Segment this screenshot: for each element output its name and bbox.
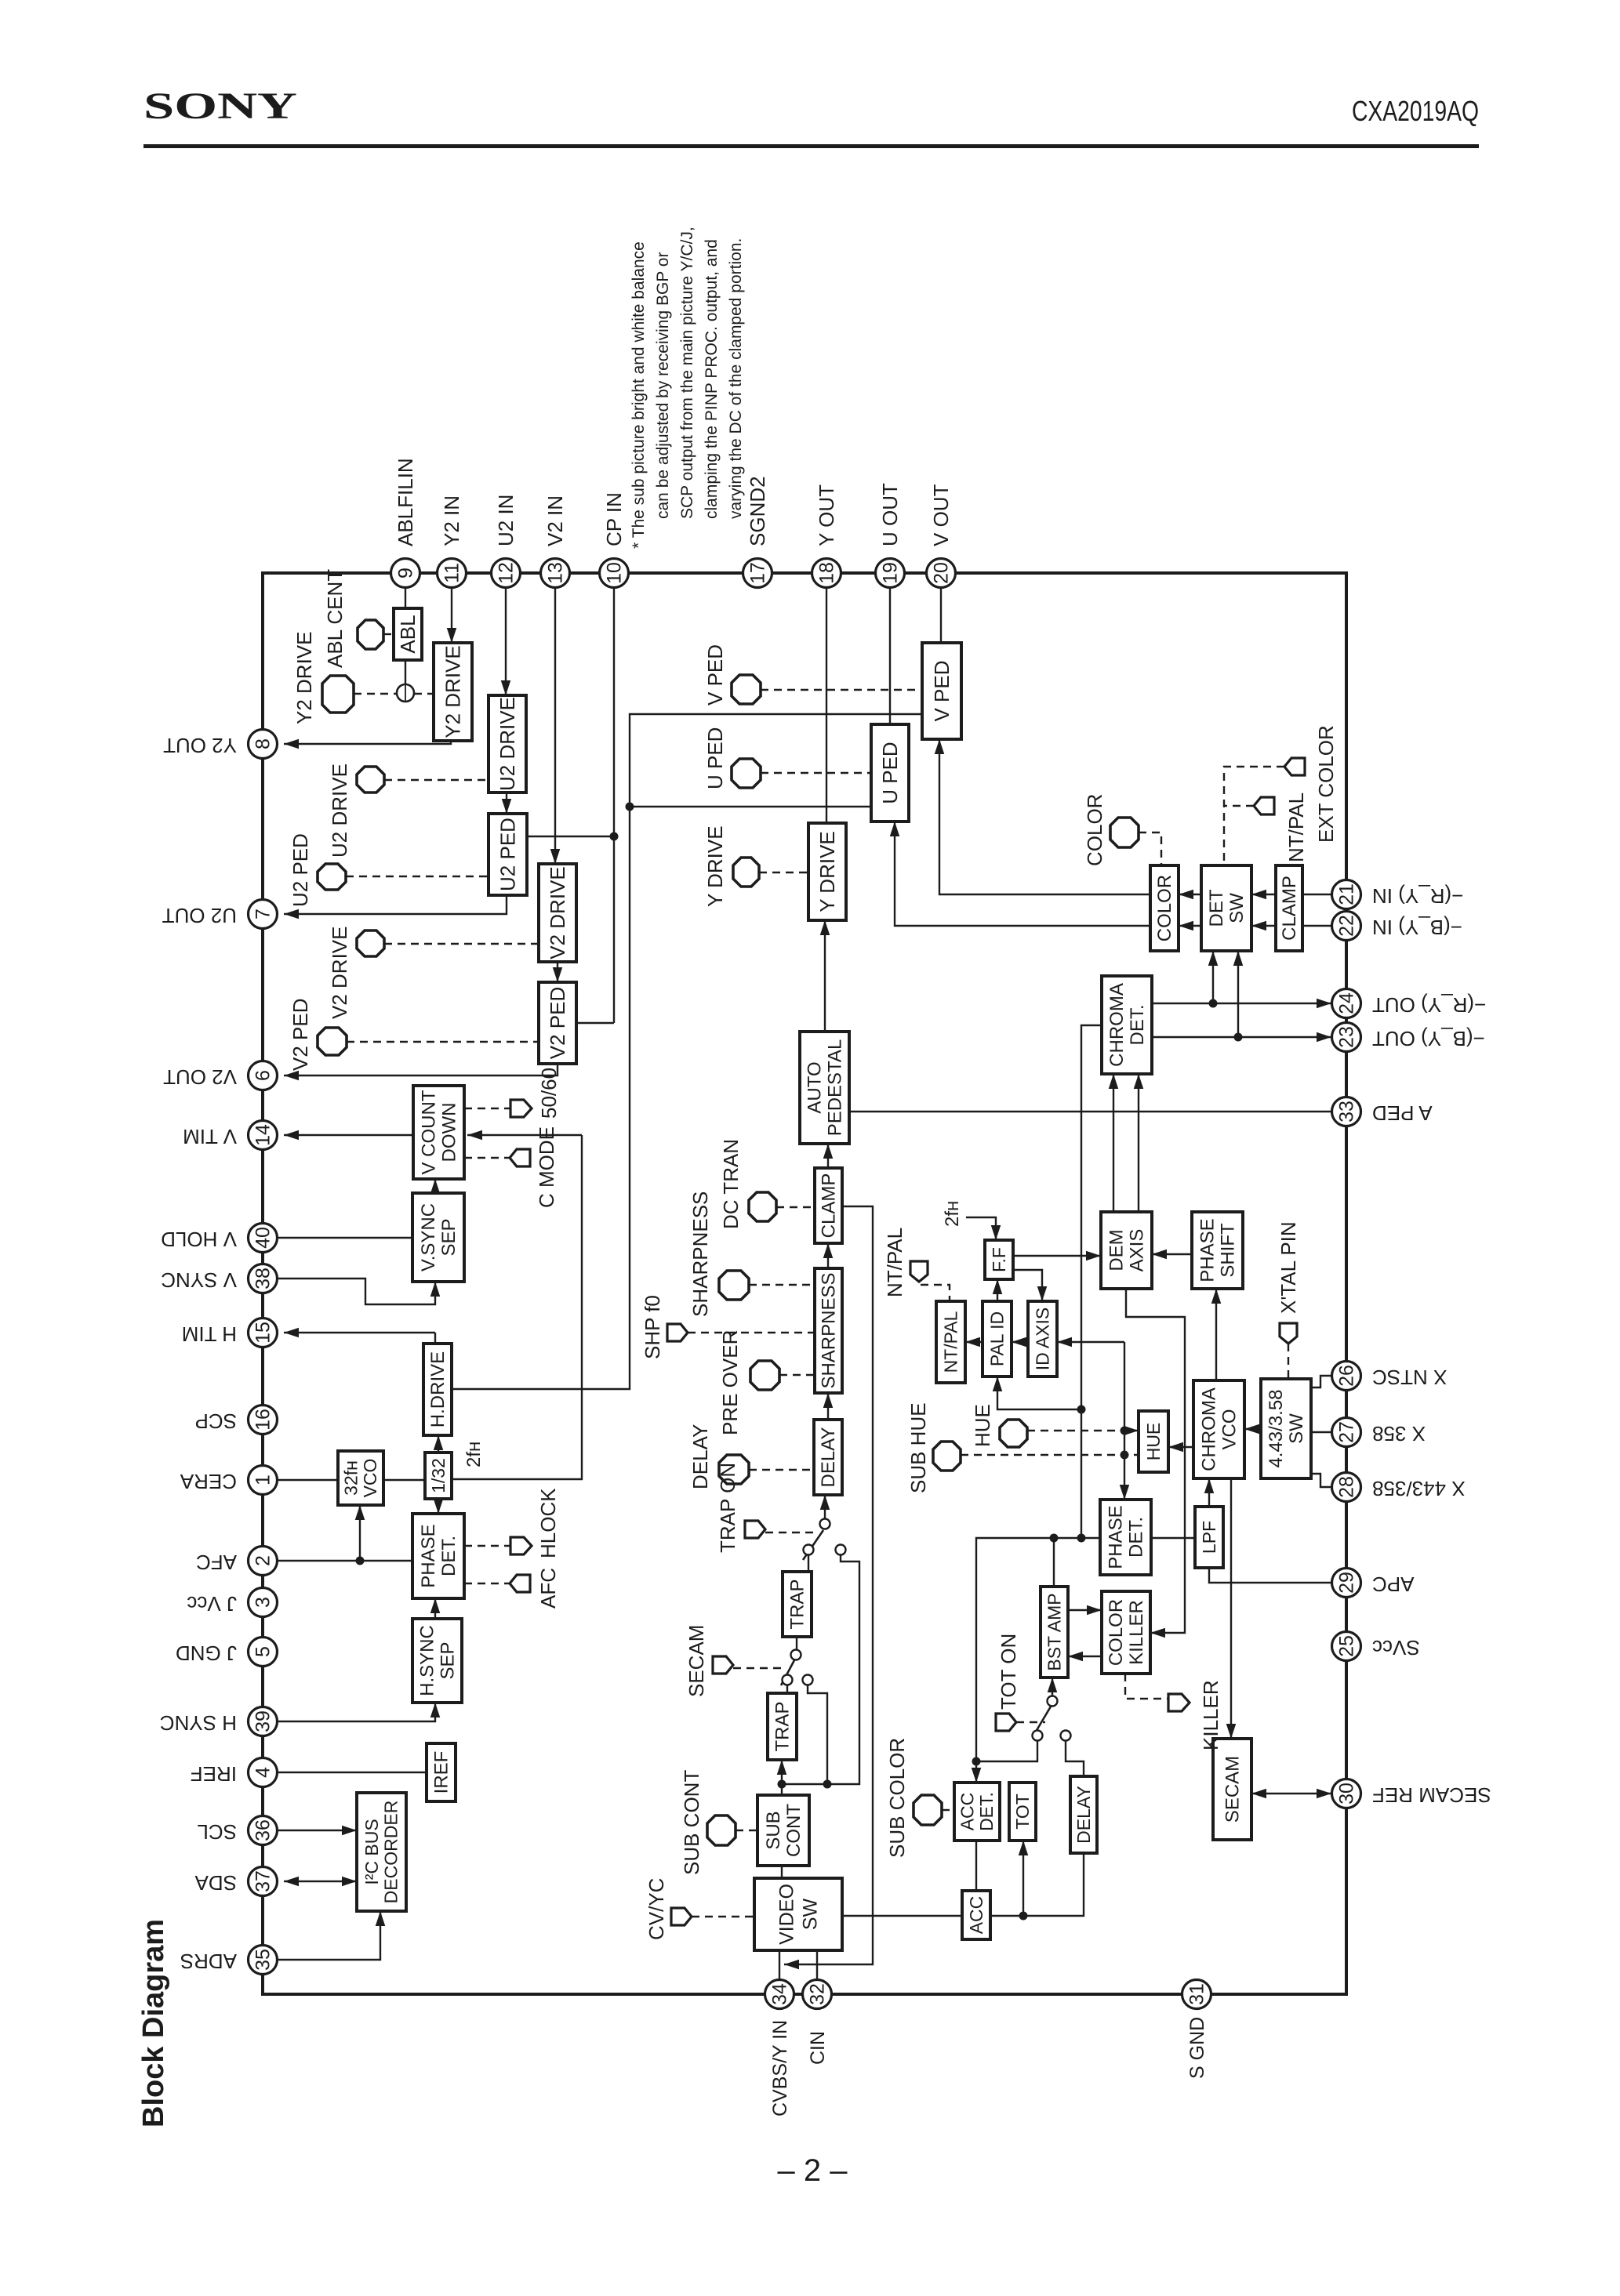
svg-text:SUB CONT: SUB CONT — [680, 1770, 703, 1875]
svg-text:V PED: V PED — [703, 644, 727, 705]
svg-text:CV/YC: CV/YC — [645, 1878, 668, 1940]
svg-text:COLOR: COLOR — [1083, 794, 1106, 866]
svg-text:15: 15 — [252, 1322, 274, 1344]
svg-text:22: 22 — [1336, 915, 1358, 937]
svg-text:PRE OVER: PRE OVER — [718, 1330, 742, 1435]
svg-text:varying the DC of the clamped: varying the DC of the clamped portion. — [727, 238, 745, 519]
svg-text:TOT ON: TOT ON — [997, 1634, 1020, 1710]
svg-text:COLOR: COLOR — [1106, 1599, 1127, 1666]
svg-text:CLAMP: CLAMP — [1279, 876, 1300, 941]
svg-text:H.DRIVE: H.DRIVE — [427, 1351, 449, 1427]
svg-text:PHASE: PHASE — [1197, 1218, 1219, 1282]
svg-text:X NTSC: X NTSC — [1372, 1366, 1447, 1389]
svg-text:9: 9 — [395, 568, 417, 579]
svg-text:SCL: SCL — [197, 1820, 237, 1844]
svg-text:X'TAL PIN: X'TAL PIN — [1277, 1221, 1300, 1314]
svg-text:APC: APC — [1372, 1572, 1414, 1596]
svg-text:40: 40 — [252, 1227, 274, 1249]
svg-text:26: 26 — [1336, 1365, 1358, 1387]
svg-text:* The sub picture bright and w: * The sub picture bright and white balan… — [630, 241, 648, 549]
svg-text:U PED: U PED — [703, 727, 727, 789]
svg-text:8: 8 — [252, 738, 274, 749]
svg-text:DET.: DET. — [1127, 1004, 1148, 1045]
svg-text:NT/PAL: NT/PAL — [940, 1311, 961, 1373]
svg-text:TRAP ON: TRAP ON — [716, 1463, 739, 1553]
svg-text:20: 20 — [931, 562, 953, 584]
svg-text:U2 OUT: U2 OUT — [162, 904, 237, 927]
svg-text:HUE: HUE — [971, 1404, 994, 1447]
svg-text:4.43/3.58: 4.43/3.58 — [1266, 1389, 1287, 1467]
svg-text:V OUT: V OUT — [929, 484, 953, 546]
svg-text:SUB: SUB — [763, 1811, 784, 1849]
svg-text:CHROMA: CHROMA — [1199, 1387, 1220, 1471]
svg-text:V PED: V PED — [930, 660, 953, 721]
svg-text:– 2 –: – 2 – — [778, 2153, 848, 2188]
svg-text:AFC: AFC — [196, 1551, 237, 1574]
svg-text:19: 19 — [880, 562, 902, 584]
svg-text:SECAM REF: SECAM REF — [1372, 1783, 1491, 1807]
svg-text:DELAY: DELAY — [688, 1424, 712, 1489]
svg-text:V.SYNC: V.SYNC — [418, 1203, 439, 1271]
svg-text:33: 33 — [1336, 1101, 1358, 1123]
svg-text:DET: DET — [1206, 889, 1227, 927]
svg-text:35: 35 — [252, 1949, 274, 1971]
svg-text:3: 3 — [252, 1597, 274, 1608]
svg-text:KILLER: KILLER — [1126, 1600, 1147, 1665]
svg-text:PHASE: PHASE — [418, 1524, 439, 1587]
svg-text:V TIM: V TIM — [183, 1125, 237, 1148]
svg-text:18: 18 — [816, 562, 838, 584]
svg-text:17: 17 — [747, 562, 769, 584]
svg-text:U PED: U PED — [878, 742, 902, 803]
svg-text:J Vcc: J Vcc — [187, 1592, 237, 1616]
svg-text:TRAP: TRAP — [772, 1701, 794, 1751]
svg-text:can be adjusted by receiving B: can be adjusted by receiving BGP or — [654, 252, 672, 519]
svg-text:14: 14 — [252, 1124, 274, 1146]
svg-text:IREF: IREF — [191, 1762, 237, 1786]
svg-text:X 443/358: X 443/358 — [1372, 1477, 1466, 1500]
svg-text:V2 IN: V2 IN — [543, 495, 567, 546]
svg-text:SEP: SEP — [438, 1218, 459, 1256]
svg-text:NT/PAL: NT/PAL — [883, 1228, 906, 1297]
svg-text:Block Diagram: Block Diagram — [137, 1919, 170, 2127]
svg-text:DECORDER: DECORDER — [381, 1801, 401, 1904]
svg-text:I²C BUS: I²C BUS — [361, 1819, 382, 1884]
svg-text:TOT: TOT — [1012, 1794, 1033, 1830]
svg-text:U2 DRIVE: U2 DRIVE — [328, 764, 351, 858]
svg-text:H TIM: H TIM — [182, 1322, 237, 1346]
svg-text:SECAM: SECAM — [1222, 1756, 1244, 1823]
svg-text:23: 23 — [1336, 1026, 1358, 1048]
svg-text:S GND: S GND — [1186, 2017, 1208, 2079]
svg-text:DELAY: DELAY — [1073, 1786, 1094, 1844]
svg-text:DOWN: DOWN — [439, 1103, 460, 1163]
svg-text:CVBS/Y IN: CVBS/Y IN — [769, 2020, 791, 2116]
svg-text:37: 37 — [252, 1870, 274, 1892]
svg-text:1/32: 1/32 — [428, 1458, 449, 1493]
svg-text:29: 29 — [1336, 1572, 1358, 1594]
svg-text:ADRS: ADRS — [180, 1950, 237, 1973]
svg-text:12: 12 — [496, 562, 518, 584]
svg-text:SGND2: SGND2 — [746, 476, 769, 546]
svg-text:27: 27 — [1336, 1421, 1358, 1443]
svg-text:V SYNC: V SYNC — [161, 1268, 237, 1292]
svg-text:13: 13 — [545, 562, 567, 584]
svg-text:AFC: AFC — [536, 1568, 560, 1609]
svg-text:ABL CENT: ABL CENT — [323, 569, 347, 668]
svg-text:V COUNT: V COUNT — [419, 1090, 440, 1174]
svg-text:2: 2 — [252, 1555, 274, 1566]
svg-text:CXA2019AQ: CXA2019AQ — [1352, 95, 1479, 127]
svg-text:DET.: DET. — [1126, 1517, 1147, 1558]
svg-text:SECAM: SECAM — [685, 1625, 708, 1697]
svg-text:30: 30 — [1336, 1783, 1358, 1805]
svg-text:11: 11 — [441, 563, 463, 583]
svg-text:DC TRAN: DC TRAN — [719, 1139, 743, 1229]
svg-text:SW: SW — [1226, 893, 1248, 923]
svg-text:LPF: LPF — [1199, 1521, 1219, 1554]
svg-text:SDA: SDA — [194, 1871, 237, 1895]
svg-text:A PED: A PED — [1372, 1101, 1433, 1125]
svg-text:HLOCK: HLOCK — [536, 1488, 560, 1558]
svg-text:PHASE: PHASE — [1106, 1505, 1127, 1569]
svg-text:CERA: CERA — [180, 1470, 237, 1493]
svg-text:AUTO: AUTO — [805, 1061, 826, 1113]
svg-text:21: 21 — [1336, 883, 1358, 905]
svg-text:H SYNC: H SYNC — [160, 1711, 237, 1735]
svg-text:clamping the PINP PROC. output: clamping the PINP PROC. output, and — [703, 239, 721, 519]
svg-text:ID AXIS: ID AXIS — [1032, 1308, 1052, 1371]
svg-text:EXT COLOR: EXT COLOR — [1314, 725, 1338, 843]
svg-text:39: 39 — [252, 1710, 274, 1732]
svg-text:2fʜ: 2fʜ — [942, 1201, 963, 1227]
svg-text:F.F: F.F — [989, 1247, 1009, 1272]
svg-text:J GND: J GND — [176, 1641, 237, 1665]
svg-text:ABL: ABL — [396, 615, 420, 653]
svg-text:U2 PED: U2 PED — [289, 833, 312, 907]
svg-text:6: 6 — [252, 1070, 274, 1081]
svg-text:50/60: 50/60 — [537, 1068, 561, 1119]
svg-text:V2 OUT: V2 OUT — [163, 1065, 237, 1089]
svg-text:AXIS: AXIS — [1127, 1229, 1148, 1272]
svg-text:COLOR: COLOR — [1154, 875, 1175, 941]
svg-text:Y2 IN: Y2 IN — [440, 495, 463, 546]
svg-text:32: 32 — [807, 1983, 829, 2005]
svg-text:31: 31 — [1186, 1983, 1208, 2005]
svg-text:34: 34 — [769, 1983, 791, 2005]
svg-text:SHP f0: SHP f0 — [641, 1295, 664, 1359]
svg-text:10: 10 — [604, 562, 626, 584]
svg-text:NT/PAL: NT/PAL — [1284, 793, 1308, 862]
svg-text:CONT: CONT — [783, 1804, 805, 1857]
svg-text:7: 7 — [252, 909, 274, 919]
svg-text:2fʜ: 2fʜ — [463, 1442, 485, 1467]
svg-text:U2 IN: U2 IN — [494, 495, 518, 546]
svg-text:−(B_Y) OUT: −(B_Y) OUT — [1372, 1027, 1485, 1050]
svg-text:SW: SW — [800, 1898, 822, 1930]
svg-text:Y2 DRIVE: Y2 DRIVE — [441, 645, 464, 738]
svg-text:Y2 OUT: Y2 OUT — [163, 734, 237, 757]
svg-text:−(B_Y) IN: −(B_Y) IN — [1372, 916, 1462, 939]
svg-text:SHARPNESS: SHARPNESS — [819, 1272, 840, 1388]
svg-text:DELAY: DELAY — [818, 1427, 839, 1488]
svg-text:Y2 DRIVE: Y2 DRIVE — [292, 632, 316, 725]
svg-text:DET.: DET. — [976, 1792, 997, 1831]
svg-text:4: 4 — [252, 1767, 274, 1778]
svg-text:32fʜ: 32fʜ — [340, 1460, 361, 1496]
svg-text:TRAP: TRAP — [787, 1579, 808, 1629]
svg-text:DEM: DEM — [1106, 1229, 1128, 1271]
svg-text:KILLER: KILLER — [1199, 1680, 1222, 1750]
svg-text:HUE: HUE — [1143, 1423, 1164, 1461]
svg-text:CLAMP: CLAMP — [819, 1173, 840, 1239]
svg-text:V2 DRIVE: V2 DRIVE — [546, 866, 569, 959]
svg-text:U2 PED: U2 PED — [496, 818, 519, 891]
svg-text:V HOLD: V HOLD — [161, 1228, 237, 1251]
svg-text:VCO: VCO — [1219, 1409, 1240, 1449]
svg-text:28: 28 — [1336, 1476, 1358, 1498]
svg-text:C MODE: C MODE — [535, 1126, 558, 1208]
svg-text:BST AMP: BST AMP — [1044, 1593, 1064, 1670]
svg-text:ACC: ACC — [966, 1896, 986, 1935]
svg-text:SVcc: SVcc — [1372, 1636, 1420, 1659]
svg-text:1: 1 — [252, 1474, 274, 1485]
svg-text:X 358: X 358 — [1372, 1422, 1426, 1445]
svg-text:16: 16 — [252, 1409, 274, 1431]
svg-text:SCP: SCP — [195, 1409, 237, 1433]
svg-text:SHARPNESS: SHARPNESS — [688, 1192, 712, 1317]
svg-text:SHIFT: SHIFT — [1218, 1223, 1239, 1278]
svg-text:V2 PED: V2 PED — [289, 999, 312, 1072]
svg-text:−(R_Y) OUT: −(R_Y) OUT — [1372, 993, 1486, 1017]
svg-text:PEDESTAL: PEDESTAL — [825, 1039, 846, 1137]
svg-text:IREF: IREF — [431, 1751, 452, 1794]
svg-text:SEP: SEP — [438, 1641, 459, 1679]
svg-text:CHROMA: CHROMA — [1106, 983, 1128, 1067]
svg-text:VIDEO: VIDEO — [776, 1884, 798, 1945]
svg-text:SCP output from the main pictu: SCP output from the main picture Y/C/J, — [678, 227, 696, 519]
svg-text:VCO: VCO — [360, 1459, 380, 1498]
svg-text:U2 DRIVE: U2 DRIVE — [496, 697, 519, 791]
svg-text:SONY: SONY — [143, 85, 297, 127]
svg-text:25: 25 — [1336, 1635, 1358, 1657]
svg-text:CIN: CIN — [807, 2031, 829, 2065]
svg-text:5: 5 — [252, 1646, 274, 1657]
svg-text:SUB HUE: SUB HUE — [906, 1402, 930, 1493]
svg-text:Y DRIVE: Y DRIVE — [703, 825, 727, 907]
svg-text:36: 36 — [252, 1819, 274, 1841]
svg-text:DET.: DET. — [438, 1536, 459, 1576]
svg-text:24: 24 — [1336, 992, 1358, 1014]
svg-text:Y DRIVE: Y DRIVE — [815, 831, 839, 912]
svg-text:38: 38 — [252, 1268, 274, 1289]
svg-text:SUB COLOR: SUB COLOR — [885, 1738, 909, 1858]
svg-text:Y OUT: Y OUT — [815, 484, 838, 546]
svg-text:V2 DRIVE: V2 DRIVE — [328, 927, 351, 1020]
svg-text:V2 PED: V2 PED — [546, 987, 569, 1060]
svg-text:CP IN: CP IN — [602, 492, 626, 546]
svg-text:ACC: ACC — [957, 1793, 977, 1831]
svg-text:PAL ID: PAL ID — [986, 1311, 1007, 1366]
svg-text:U OUT: U OUT — [878, 483, 902, 546]
svg-text:ABLFILIN: ABLFILIN — [394, 458, 417, 546]
svg-text:SW: SW — [1286, 1413, 1307, 1444]
svg-text:H.SYNC: H.SYNC — [417, 1625, 438, 1696]
svg-text:−(R_Y) IN: −(R_Y) IN — [1372, 884, 1463, 908]
